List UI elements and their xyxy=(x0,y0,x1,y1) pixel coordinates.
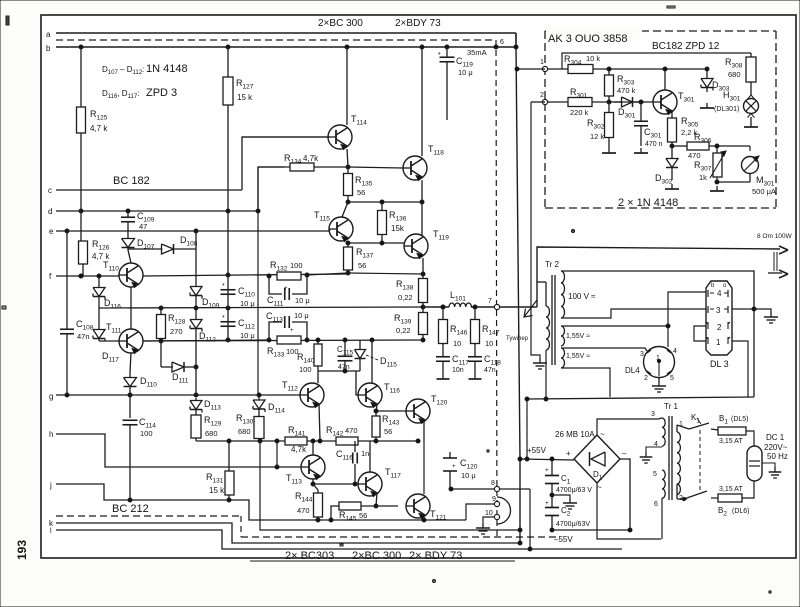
transistor T111 xyxy=(119,329,143,353)
diode D110 xyxy=(129,372,131,378)
rail b wire xyxy=(56,46,516,48)
Tr2 secondary 100V xyxy=(561,271,565,318)
resistor R132 xyxy=(277,272,301,280)
ground right rail xyxy=(753,270,755,272)
wire bridge top to Tr1 pin3 xyxy=(597,418,662,435)
wire T118 collector from b xyxy=(421,47,423,156)
wire 155b bottom xyxy=(561,368,610,397)
ground D303 xyxy=(706,103,708,108)
svg-text:10 k: 10 k xyxy=(586,54,600,63)
junction R128 top xyxy=(159,306,163,310)
wire node1 to R308 top xyxy=(562,53,751,69)
svg-text:2× BDY 73: 2× BDY 73 xyxy=(409,550,462,562)
wire T113 collector xyxy=(312,441,314,455)
junction 441/R131 xyxy=(227,439,231,443)
svg-text:ZPD 3: ZPD 3 xyxy=(146,87,177,99)
wire T121 emitter xyxy=(423,515,425,520)
junction 202/T118col xyxy=(420,200,424,204)
wire row 202 xyxy=(348,201,423,203)
wire T116 emitter xyxy=(376,404,377,414)
junction 202/R136 xyxy=(380,200,384,204)
junction 441/T113 xyxy=(311,439,315,443)
junction j/R131 xyxy=(227,498,231,502)
resistor R141 xyxy=(285,437,307,445)
rail d step up to R134 xyxy=(258,167,284,211)
svg-text:7: 7 xyxy=(488,298,492,305)
wire T118 base xyxy=(348,167,403,168)
resistor R302 xyxy=(608,102,610,113)
junction R132 left xyxy=(267,274,271,278)
junction g/D113col xyxy=(194,393,198,397)
junction R132 right xyxy=(305,273,309,277)
svg-text:*: * xyxy=(222,315,225,322)
junction 69/D303 xyxy=(705,67,709,71)
DL3 right stubs xyxy=(732,308,754,310)
svg-text:+: + xyxy=(566,449,571,458)
svg-text:270: 270 xyxy=(170,327,183,336)
diode D114 xyxy=(258,395,260,400)
svg-text:8 Om 100W: 8 Om 100W xyxy=(757,233,793,240)
junction d/x81 xyxy=(79,209,83,213)
junction 258/211 xyxy=(256,209,260,213)
resistor R127 xyxy=(227,47,229,77)
svg-text:(DL301): (DL301) xyxy=(714,106,739,113)
junction R128 bottom xyxy=(159,339,163,343)
node 1 xyxy=(542,66,547,71)
junction b/R125 xyxy=(79,45,83,49)
svg-text:680: 680 xyxy=(238,427,251,436)
Tr1 core xyxy=(668,416,670,500)
DL4 pin stubs xyxy=(647,350,651,353)
relay K1 upper contact xyxy=(676,425,678,432)
wire riser x260 to -55V row xyxy=(260,441,520,530)
wire T119 emitter xyxy=(422,258,424,274)
resistor R306 xyxy=(672,145,687,147)
svg-text:26 MB 10A: 26 MB 10A xyxy=(555,430,595,439)
bridge rectifier D1 xyxy=(574,435,620,483)
svg-text:DC 1: DC 1 xyxy=(766,433,785,442)
node 2 xyxy=(542,99,547,104)
ground H301 xyxy=(750,122,752,127)
svg-text:BC 182: BC 182 xyxy=(113,175,150,187)
svg-text:220V~: 220V~ xyxy=(764,443,788,452)
wire T111 collector row xyxy=(143,340,268,341)
Tr1 secondary xyxy=(677,432,680,494)
ground node2 xyxy=(539,358,541,363)
diode D111 xyxy=(161,366,173,368)
resistor R137 xyxy=(347,243,349,247)
resistor R144 xyxy=(313,484,318,490)
DC1 ground xyxy=(762,463,775,467)
svg-text:5: 5 xyxy=(670,375,674,382)
junction T119 emitter xyxy=(421,272,425,276)
svg-text:0,22: 0,22 xyxy=(398,293,413,302)
svg-text:4700μ/63V: 4700μ/63V xyxy=(556,521,590,528)
junction R138/output xyxy=(421,305,425,309)
transistor T113 xyxy=(301,455,325,479)
junction d/R127col xyxy=(226,209,230,213)
svg-text:2× BC303: 2× BC303 xyxy=(285,550,334,562)
speaker feeder pair xyxy=(773,252,775,271)
junction 69/T301 xyxy=(663,67,667,71)
svg-text:10 μ: 10 μ xyxy=(240,299,255,308)
wire T120 emitter xyxy=(423,420,425,441)
junction b/T118 xyxy=(420,45,424,49)
resistor R130 xyxy=(258,414,260,417)
wire T301 collector xyxy=(664,69,666,90)
svg-text:680: 680 xyxy=(728,70,741,79)
node 9 xyxy=(494,501,499,506)
svg-text:56: 56 xyxy=(359,511,367,520)
capacitor C116 xyxy=(354,441,356,452)
node 8 xyxy=(494,486,499,491)
wire T114 base xyxy=(242,136,328,138)
svg-text:193: 193 xyxy=(15,540,29,560)
wire h to T113 base riser xyxy=(276,441,278,467)
wire T114 emitter xyxy=(347,149,348,167)
svg-text:3: 3 xyxy=(716,306,721,315)
wire 155a top xyxy=(561,325,668,327)
resistor R133 xyxy=(277,336,301,344)
rail c wire xyxy=(56,189,242,191)
Tr1 primary lower xyxy=(662,470,665,498)
wire T113 emitter xyxy=(312,479,314,484)
wire T117 emitter xyxy=(376,493,377,506)
junction 155a/DL4 xyxy=(666,324,670,328)
junction 69/R303 xyxy=(607,67,611,71)
wire x531 vertical xyxy=(515,32,517,34)
resistor R135 xyxy=(347,167,349,174)
svg-text:47n: 47n xyxy=(484,367,496,374)
svg-text:(DL6): (DL6) xyxy=(732,508,750,515)
wire L101 junction xyxy=(441,305,445,309)
junction e/C108 xyxy=(65,229,69,233)
Tr1 primary upper xyxy=(662,418,665,446)
signal arrow xyxy=(524,300,537,317)
junction R134/T114col xyxy=(346,165,350,169)
svg-text:6: 6 xyxy=(500,39,504,46)
svg-text:100: 100 xyxy=(290,261,303,270)
wire T117 collector xyxy=(369,441,371,472)
rail h wire xyxy=(56,434,301,467)
fuse B1 xyxy=(711,429,718,430)
ground C117 xyxy=(442,374,444,379)
wire R141-R142 xyxy=(307,440,336,442)
resistor R142 xyxy=(336,437,358,445)
svg-text:3: 3 xyxy=(651,411,655,418)
wire B1 to DC1 xyxy=(746,431,754,446)
ground node10 xyxy=(482,523,484,528)
svg-text:+: + xyxy=(545,467,549,474)
resistor R305 xyxy=(671,114,673,118)
junction f/R127col xyxy=(226,273,230,277)
potentiometer R307 xyxy=(716,146,718,153)
junction 308/C110col xyxy=(226,306,230,310)
svg-text:4: 4 xyxy=(717,289,722,298)
wire row 273 xyxy=(307,273,348,275)
transistor T115 xyxy=(342,202,348,217)
junction h/T113base riser xyxy=(275,465,279,469)
junction d/C109col xyxy=(126,209,130,213)
svg-text:2 × 1N 4148: 2 × 1N 4148 xyxy=(618,197,678,209)
dashed rail a' (node 6 link) xyxy=(56,39,496,41)
junction R305 bottom xyxy=(670,144,674,148)
wire bridge bottom to Tr1 pin6 xyxy=(597,483,661,539)
DL3 pin2 loop xyxy=(694,326,706,341)
wire row 371 xyxy=(318,370,360,372)
svg-text:5: 5 xyxy=(653,471,657,478)
resistor R131 xyxy=(228,441,230,471)
node 10 xyxy=(494,514,499,519)
wire row 484 xyxy=(313,483,358,485)
svg-text:470: 470 xyxy=(297,506,310,515)
speck marks xyxy=(6,16,9,25)
connector arc 9-10 xyxy=(497,497,511,524)
junction g/D110 xyxy=(128,393,132,397)
fuse B2 xyxy=(718,494,742,502)
wire T110 emitter down xyxy=(130,287,132,329)
capacitor C119 xyxy=(446,47,448,57)
rail f wire xyxy=(56,275,119,277)
capacitor C109 xyxy=(127,211,129,217)
svg-text:d: d xyxy=(48,207,52,216)
wire Tr1 pin6 riser xyxy=(661,498,663,539)
svg-text:1n: 1n xyxy=(361,449,369,458)
svg-text:1: 1 xyxy=(656,355,660,362)
wire T112 base xyxy=(258,394,300,396)
junction C1/C2 xyxy=(550,493,554,497)
wire T111 to D110 xyxy=(130,353,131,372)
svg-text:1k: 1k xyxy=(699,173,707,182)
svg-text:10: 10 xyxy=(485,339,493,348)
svg-text:15 k: 15 k xyxy=(237,93,253,102)
wire D117 to T111 base xyxy=(99,340,119,342)
wire node10 to ground xyxy=(483,517,494,523)
svg-text:–: – xyxy=(622,449,627,458)
wire node1 row xyxy=(593,68,707,70)
junction output/R147 xyxy=(473,305,477,309)
+55V distribution vertical wire xyxy=(516,47,520,459)
junction b/C119 xyxy=(445,45,449,49)
capacitor C120 xyxy=(449,452,451,458)
svg-text:2: 2 xyxy=(540,92,544,99)
wire R128 to D111 riser xyxy=(160,341,162,367)
wire node8 row xyxy=(451,488,497,490)
resistor R128 xyxy=(160,308,162,312)
zener diode D116 xyxy=(98,276,100,286)
junction 102/C301 xyxy=(639,100,643,104)
svg-text:(DL5): (DL5) xyxy=(731,416,749,423)
rail k dashed xyxy=(56,515,241,517)
svg-text:h: h xyxy=(49,430,53,439)
wire T120 base xyxy=(376,410,406,412)
lamp H301 xyxy=(750,82,752,95)
wire T116 collector xyxy=(371,340,373,384)
svg-text:~: ~ xyxy=(600,430,605,439)
svg-text:56: 56 xyxy=(384,427,392,436)
resistor R303 xyxy=(608,69,610,75)
capacitor C112 xyxy=(221,321,236,323)
junction 102/R303 xyxy=(607,100,611,104)
svg-text:15 k: 15 k xyxy=(209,486,225,495)
wire to T116 base xyxy=(356,371,358,395)
wire psu top row xyxy=(527,397,754,399)
svg-text:e: e xyxy=(49,227,54,236)
junction b/T114 xyxy=(345,45,349,49)
junction output/R146 xyxy=(441,305,445,309)
resistor R126 xyxy=(82,240,84,242)
speaker terminal 1 xyxy=(779,246,788,254)
relay K1 linkage xyxy=(699,430,701,492)
capacitor C113 xyxy=(269,322,282,340)
svg-text:470 k: 470 k xyxy=(617,86,636,95)
relay K1 lower contact xyxy=(676,484,678,499)
wire row 243 to T119 base xyxy=(348,242,405,244)
connector DL4 body xyxy=(644,347,675,378)
resistor R138 xyxy=(422,274,424,279)
wire output to node7 xyxy=(471,306,537,308)
wire T115 emitter xyxy=(347,241,349,244)
svg-text:1N 4148: 1N 4148 xyxy=(146,63,188,75)
resistor R308 xyxy=(750,53,752,57)
transistor T120 xyxy=(406,399,430,423)
junction R307 bottom xyxy=(715,180,719,184)
wire d column down xyxy=(257,167,259,395)
rail g wire xyxy=(56,394,259,396)
svg-text:~: ~ xyxy=(597,483,602,492)
svg-text:10 μ: 10 μ xyxy=(294,311,309,320)
junction 441/T112em xyxy=(318,439,322,443)
junction 441/R143 xyxy=(374,439,378,443)
svg-text:1: 1 xyxy=(716,338,721,347)
diode D301 xyxy=(614,101,623,103)
+55V rail wire xyxy=(520,459,574,460)
svg-text:DL 3: DL 3 xyxy=(710,359,729,369)
svg-text:1,55V ≈: 1,55V ≈ xyxy=(566,333,590,340)
svg-text:*: * xyxy=(222,283,225,290)
-55V rail wire xyxy=(552,529,631,531)
meter M301 xyxy=(749,146,751,151)
svg-text:10 μ: 10 μ xyxy=(295,296,310,305)
svg-text:BC 212: BC 212 xyxy=(112,503,149,515)
junction g/259 xyxy=(257,393,261,397)
wire T301 emitter xyxy=(671,110,673,114)
capacitor C115 xyxy=(344,340,346,356)
wire T115 base from e xyxy=(329,229,330,231)
svg-text:4700μ/63 V: 4700μ/63 V xyxy=(556,487,592,494)
diode D109 xyxy=(195,249,197,284)
wire T112 collector xyxy=(317,371,319,383)
wire 100V top to right rail xyxy=(561,271,754,397)
junction bus/R133 right xyxy=(305,338,309,342)
junction bus/C113 left xyxy=(267,338,271,342)
capacitor C301 xyxy=(640,102,642,121)
rail c step up to T114 base xyxy=(242,137,330,190)
svg-text:BC182 ZPD 12: BC182 ZPD 12 xyxy=(652,41,720,52)
wire D112col to g xyxy=(195,367,197,395)
junction R139/bus xyxy=(421,338,425,342)
junction g/C108 xyxy=(65,393,69,397)
zener diode D113 xyxy=(195,398,197,401)
rail a +supply wire xyxy=(56,32,516,34)
svg-text:AK 3 OUO 3858: AK 3 OUO 3858 xyxy=(548,33,628,45)
wire T114 collector from b xyxy=(346,47,348,125)
svg-text:4,7k: 4,7k xyxy=(303,154,319,163)
junction b/R127 xyxy=(226,45,230,49)
svg-text:1,55V ≈: 1,55V ≈ xyxy=(566,353,590,360)
svg-text:1: 1 xyxy=(540,59,544,66)
diode D115 xyxy=(359,340,361,347)
junction f/x81 xyxy=(79,274,83,278)
svg-text:15k: 15k xyxy=(391,224,405,233)
svg-text:10 μ: 10 μ xyxy=(240,331,255,340)
wire 155b top to DL4 pin3 xyxy=(561,348,647,351)
bus wire row 340 xyxy=(144,340,423,341)
wire Tr2 primary riser xyxy=(545,350,547,399)
svg-text:12 k: 12 k xyxy=(590,132,604,141)
junction 441/T120em xyxy=(416,439,420,443)
svg-text:470: 470 xyxy=(688,151,701,160)
wire R127 down xyxy=(227,105,229,340)
svg-text:4,7 k: 4,7 k xyxy=(90,124,108,133)
capacitor C1 xyxy=(551,460,553,475)
node 7 xyxy=(494,304,499,309)
junction bus/C115 xyxy=(343,338,347,342)
svg-text:Tr 1: Tr 1 xyxy=(664,402,678,411)
capacitor C110 xyxy=(221,289,236,291)
diode D107 xyxy=(127,236,129,239)
resistor R304 xyxy=(548,68,568,70)
svg-text:56: 56 xyxy=(358,261,366,270)
capacitor C117 xyxy=(436,356,450,358)
capacitor C114 xyxy=(129,395,131,418)
capacitor C108 xyxy=(66,231,68,329)
junction 341/C112col xyxy=(226,338,230,342)
rail d wire xyxy=(56,210,258,212)
svg-text:10 μ: 10 μ xyxy=(458,68,473,77)
resistor R134 xyxy=(258,166,290,168)
transistor T112 xyxy=(300,383,324,407)
resistor R129 xyxy=(195,412,197,415)
wire T112 emitter xyxy=(319,404,320,440)
svg-text:3,15 AT: 3,15 AT xyxy=(719,486,743,493)
wire D108 right riser to e xyxy=(195,231,197,249)
resistor R145 xyxy=(331,506,339,520)
svg-text:470: 470 xyxy=(345,426,358,435)
wire row 441 xyxy=(196,440,285,442)
wire node2 from x531 xyxy=(531,101,545,103)
mains connector DC1 xyxy=(747,446,762,481)
svg-text:+: + xyxy=(545,500,549,507)
rail l wire xyxy=(56,530,622,549)
svg-text:3: 3 xyxy=(640,351,644,358)
junction R144 bottom xyxy=(316,518,320,522)
junction f/x81 xyxy=(79,274,83,278)
svg-text:DL4: DL4 xyxy=(625,366,640,375)
wire R306 right xyxy=(709,145,750,147)
output inductor L101 xyxy=(423,306,449,308)
ground stub right xyxy=(770,312,772,317)
wire DL4 pin4 riser xyxy=(668,292,706,326)
resistor R139 xyxy=(422,307,424,313)
junction R136 bottom xyxy=(380,241,384,245)
svg-text:56: 56 xyxy=(357,188,365,197)
resistor R140 xyxy=(317,340,319,344)
svg-text:9: 9 xyxy=(492,496,496,503)
ground C1C2 xyxy=(552,495,570,498)
junction e/D108col xyxy=(194,229,198,233)
resistor R301 xyxy=(548,101,568,103)
